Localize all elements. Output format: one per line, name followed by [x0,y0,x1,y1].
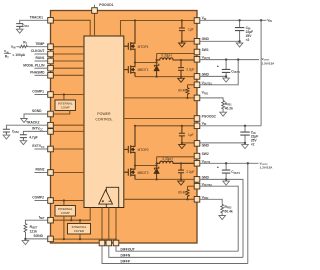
svg-text:VIN: VIN [11,45,16,50]
ground RFB1 [220,111,227,117]
wire SGND1 internal [53,111,70,115]
svg-text:RT: RT [23,41,27,46]
pin VOUTS1 [194,82,200,88]
pin VOUT2 [194,161,200,167]
ground COUT2 [223,179,230,185]
pin PGOOD1 top [92,8,98,14]
svg-text:×2: ×2 [251,143,255,147]
wire SW1 node [135,54,195,66]
junction SW2 diode [156,164,158,166]
ground internal ch2 bottom [178,179,185,185]
junction CIN1 gnd [238,40,240,42]
ground CSS2 [3,133,10,139]
junction SW1 diode [156,61,158,63]
svg-text:MBOT1: MBOT1 [138,68,149,72]
transistor MBOT2 [124,166,135,180]
wire RUN2 stub [35,172,48,174]
wire VIN2 line [200,125,261,127]
wire INTVCC internal [53,130,84,132]
transistor MTOP2 [124,126,135,166]
diode D2 schottky [154,167,159,180]
junction GND2 2.2uF [180,178,182,180]
svg-text:fSET: fSET [39,215,45,220]
wire GND2b to diffn riser [226,179,243,257]
svg-text:1.5V/13A: 1.5V/13A [262,61,275,65]
svg-text:0.33µH: 0.33µH [162,157,173,161]
junction GND2 diode [156,178,158,180]
capacitor COUT2 [222,170,230,173]
pin VOUT1 [194,57,200,63]
wire CIN2 bottom to GND pin [200,135,245,143]
wire VFB2 internal [124,198,195,200]
junction GND2 1uF [181,142,183,144]
wire TEMP internal [53,46,84,48]
ground internal ch1 bottom [178,77,185,83]
wire diff amp to DIFFOUT pin [115,208,117,242]
svg-text:GND: GND [202,143,210,147]
svg-text:TRACK1: TRACK1 [30,16,44,20]
diff amp U2 triangle [99,190,113,204]
diff amp box [106,187,118,207]
transistor MBOT1 [124,63,135,77]
wire GND2 internal [182,142,195,144]
svg-text:DIFFOUT: DIFFOUT [121,247,135,251]
wire CIN1 branch [239,20,241,27]
svg-text:GND: GND [202,37,210,41]
wire diff amp to DIFFN pin [108,208,110,242]
svg-text:PGOOD1: PGOOD1 [99,3,113,7]
svg-text:EXTVCC: EXTVCC [32,144,44,149]
wire VOUTS1 sense loop [200,60,238,85]
junction VIN1 MTOP1 drain [134,19,136,21]
wire COMP1 stub [35,94,48,96]
junction COMP2 [63,199,65,201]
svg-text:VOUT2: VOUT2 [202,159,211,164]
svg-text:= 100µA: = 100µA [12,53,25,57]
resistor RFB2 [221,204,224,213]
svg-text:VFB1: VFB1 [202,91,209,96]
ground RFB2 [219,214,226,220]
capacitor 1uF ch1 [179,21,185,42]
wire DIFFN external [109,246,243,258]
svg-text:VOUTS1: VOUTS1 [202,81,213,86]
pin DIFFP [99,240,105,246]
junction VFB1 divider [186,97,188,99]
junction VIN rail CIN1 [238,19,240,21]
junction RfSET sgnd [24,238,26,240]
wire internal filter to sgnd bus [79,234,81,239]
svg-text:121k: 121k [30,229,38,233]
svg-text:60.4k: 60.4k [178,191,186,195]
wire CLKOUT internal [53,53,84,55]
ground COUT1 [223,76,230,82]
diode D1 schottky [154,64,159,77]
svg-text:COMP: COMP [61,211,70,215]
wire TRACK1 internal [53,20,90,36]
wire VIN2 internal [135,125,195,127]
wire MBOT1 source to GND pin [135,76,195,78]
svg-text:MBOT2: MBOT2 [138,171,149,175]
svg-text:1µF: 1µF [188,133,194,137]
wire COUT1 branch [225,60,227,70]
wire TRACK2 to CSS2 [6,125,47,129]
svg-text:SGND: SGND [32,109,42,113]
pin DIFFN [106,240,112,246]
svg-text:×2: ×2 [246,38,250,42]
wire COUT2 bottom / GND2b [200,173,226,179]
junction SGND bus filter [79,238,81,240]
wire CLKOUT stub [35,53,48,55]
wire COMP2 to internal comp 2 [63,201,65,206]
pin VFB2 [194,197,200,203]
junction VIN1 1uF [181,19,183,21]
svg-text:COMP1: COMP1 [32,90,44,94]
svg-text:CLKOUT: CLKOUT [31,49,45,53]
svg-text:1µF: 1µF [188,28,194,32]
junction SW1 inductor [156,59,158,61]
svg-text:GND: GND [202,73,210,77]
svg-text:60.4k: 60.4k [225,209,233,213]
pin fSET [48,217,54,223]
junction COUT2 gnd [225,178,227,180]
junction VOUT1 sense [237,58,239,60]
wire internal comp 2 to sgnd bus [63,216,65,239]
pin SGND2 [48,236,54,242]
svg-text:COUT1: COUT1 [231,70,240,75]
junction VOUT1 COUT1 [225,58,227,60]
resistor 60.4k ch1 internal [186,85,189,98]
wire CIN2 branch [244,126,246,132]
capacitor 2.2uF ch2 [178,163,184,179]
junction SW1 fets [134,61,136,63]
capacitor CSS1 [16,24,23,29]
wire VFB2 to RFB2 [200,199,222,204]
resistor RfSET [24,224,27,239]
svg-text:DIFFN: DIFFN [121,254,131,258]
wire EXTVCC internal [53,148,84,150]
wire VFB1 to RFB1 [200,98,223,101]
INTERNAL FILTER box [68,224,91,235]
POWER CONTROL block [84,36,124,208]
junction VIN rail CIN2 [244,125,246,127]
svg-text:VIN: VIN [202,16,207,21]
wire COMP2 internal [53,200,84,202]
INTERNAL COMP box 2 [55,206,75,217]
svg-text:DIFFP: DIFFP [121,260,131,264]
svg-text:PGOOD2: PGOOD2 [202,115,216,119]
junction VIN2 1uF [181,125,183,127]
wire CIN1 bottom to GND pin [200,31,240,42]
svg-text:TRACK2: TRACK2 [26,120,40,124]
svg-text:+: + [217,64,220,69]
junction VOUT2 2.2uF [180,162,182,164]
pin EXTVCC [48,146,54,152]
pin COMP1 [48,92,54,98]
svg-text:CSS1: CSS1 [22,23,30,28]
wire VFB1 internal [124,97,195,99]
capacitor 4.7uF [20,135,27,140]
pin RUN2 [48,170,54,176]
junction SW2 fets [134,164,136,166]
pin MODE_PLLIN [48,65,54,71]
svg-text:POWER: POWER [97,112,111,116]
wire MODE_PLLIN stub [35,67,48,69]
capacitor COUT1 [222,69,230,72]
wire EXTVCC stub [35,148,48,150]
pin GND1b [194,74,200,80]
svg-text:GND: GND [202,176,210,180]
pin TEMP [48,44,54,50]
wire COMP2 stub [35,200,48,202]
pin CLKOUT [48,51,54,57]
wire SW2 node [135,157,195,168]
wire VOUTS2 internal [188,185,195,187]
junction VOUT2 diffp [247,162,249,164]
pin GND2b [194,177,200,183]
wire VIN1 internal [121,21,195,37]
svg-text:CSS2: CSS2 [12,129,20,134]
svg-text:VIN: VIN [267,19,272,24]
wire PHASMD internal [53,74,84,76]
junction VIN rail corner [260,19,262,21]
pin VOUTS2 [194,183,200,189]
pin SW2 [194,153,200,159]
capacitor CSS2 [3,129,10,134]
pin COMP2 [48,198,54,204]
junction VIN2 MTOP2 drain [134,125,136,127]
svg-text:COUT2: COUT2 [231,170,240,175]
wire DIFFOUT external [116,246,238,251]
capacitor 1uF ch2 [179,126,185,143]
wire internal comp 2 to fset line [70,216,72,220]
inductor L1 [157,58,195,60]
svg-text:TEMP: TEMP [35,42,45,46]
svg-text:FILTER: FILTER [74,229,85,233]
wire VOUT2 to diffp riser [247,163,249,263]
pin PGOOD2 [194,116,200,122]
wire VIN rail down [260,20,262,126]
svg-text:0.33µH: 0.33µH [161,54,172,58]
pin boxes left side [48,18,54,242]
resistor 60.4k ch2 internal [186,186,189,199]
junction fSET comp2 [70,219,72,221]
ground internal ch2 top [179,143,186,149]
wire VOUTS2 to diffout riser [200,186,238,251]
junction GND1 2.2uF [180,76,182,78]
pin boxes right side [194,18,200,202]
svg-text:VOUT1: VOUT1 [202,55,211,60]
wire MODE_PLLIN internal [53,67,84,69]
wire RUN1 internal [53,60,84,62]
wire diff amp to DIFFP pin [101,208,103,242]
wire DIFFP external [102,246,248,264]
wire SGND2 bus [53,238,117,240]
wire SGND2 to ground [25,238,47,240]
pin PHASMD [48,73,54,79]
junction COUT1 gnd [225,75,227,77]
ground CIN1 [236,41,243,47]
pin VIN2 [194,123,200,129]
svg-text:4.7µF: 4.7µF [29,136,38,140]
wire TEMP to RT [16,46,47,48]
svg-text:COMP2: COMP2 [32,196,44,200]
inductor L2 [157,161,195,163]
wire SGND1 external [24,114,48,117]
svg-text:CONTROL: CONTROL [95,117,112,121]
wire MBOT2 source to GND pin [135,178,195,180]
svg-text:PHASMD: PHASMD [30,71,45,75]
wire RUN2 internal [53,172,84,174]
transistor MTOP1 [124,21,135,63]
ground CSS1 [16,28,23,34]
capacitor CIN1 [235,28,244,31]
junction CIN2 gnd [244,142,246,144]
svg-text:RUN2: RUN2 [36,168,45,172]
capacitor 2.2uF ch1 [178,60,184,77]
svg-text:VIN: VIN [202,121,207,126]
pin RUN1 [48,58,54,64]
svg-text:VOUTS2: VOUTS2 [202,182,213,187]
svg-text:SW1: SW1 [202,48,209,52]
pin INTVCC [48,129,54,135]
junction GND1 1uF [181,40,183,42]
pin TRACK2 [48,122,54,128]
wire VOUT1 line [200,59,259,61]
ground internal ch1 top [179,41,186,47]
pin GND1a [194,39,200,45]
junction VOUT1 2.2uF [180,59,182,61]
pin SGND1 [48,111,54,117]
wire COUT2 branch [225,163,227,170]
pin TRACK1 [48,18,54,24]
svg-text:COMP: COMP [61,105,70,109]
junction GND1 diode [156,76,158,78]
INTERNAL COMP box 1 [55,100,75,111]
wire fSET internal [53,208,90,221]
wire RUN1 stub [35,60,48,62]
svg-text:RUN1: RUN1 [36,56,45,60]
wire PHASMD stub [35,74,48,76]
wire GND1 internal [182,40,195,42]
ground 4.7uF [20,139,27,145]
wire COUT1 bottom / GND1b [200,72,226,76]
svg-text:SW2: SW2 [202,152,209,156]
IC U1 module body [51,11,198,244]
svg-text:1.2V/13A: 1.2V/13A [260,166,274,170]
resistor RFB1 [222,101,225,111]
pin GND2a [194,141,200,147]
wire INTVCC to cap [23,131,47,134]
wire PGOOD2 internal [124,118,195,120]
junction COMP1 [63,93,65,95]
junction SW2 inductor [156,162,158,164]
wire fSET to RfSET [25,220,47,223]
pin VIN1 [194,18,200,24]
svg-text:60.4k: 60.4k [178,89,186,93]
capacitor CIN2 [240,132,249,135]
junction fSET filter [79,219,81,221]
junction VOUT2 COUT2 [225,162,227,164]
wire PGOOD1 stub [94,5,96,8]
wire VIN rail top [200,19,267,21]
resistor RT [19,45,27,48]
svg-text:2.2µF: 2.2µF [186,170,194,174]
svg-text:2.2µF: 2.2µF [186,67,194,71]
svg-text:MODE_PLLIN: MODE_PLLIN [23,63,45,67]
pin SW1 [194,49,200,55]
wire TRACK1 to CSS1 [20,20,48,23]
svg-text:RT: RT [5,55,9,60]
svg-text:INTVCC: INTVCC [32,127,43,132]
ground SGND1 [21,117,28,123]
wire PGOOD1 internal [94,11,96,36]
ground CIN2 [242,143,249,149]
svg-text:VFB2: VFB2 [202,195,209,200]
wire internal filter to fset line [79,220,81,223]
external wires gray [6,5,266,264]
wire VOUTS1 internal [188,84,195,86]
svg-text:MTOP2: MTOP2 [138,148,149,152]
wire TRACK2 internal [53,124,84,126]
pin DIFFOUT [113,240,119,246]
svg-text:SGND: SGND [33,234,43,238]
svg-text:40.2k: 40.2k [225,106,233,110]
pin VFB1 [194,95,200,101]
junction VFB2 divider [186,198,188,200]
wire COMP1 to internal comp 1 [63,95,65,101]
svg-text:+: + [217,165,220,170]
ground RfSET / SGND2 [22,239,29,245]
svg-text:MTOP1: MTOP1 [138,45,149,49]
junction SGND bus comp2 [63,238,65,240]
wire COMP1 internal [53,94,84,96]
wire VOUT2 line [200,162,259,164]
